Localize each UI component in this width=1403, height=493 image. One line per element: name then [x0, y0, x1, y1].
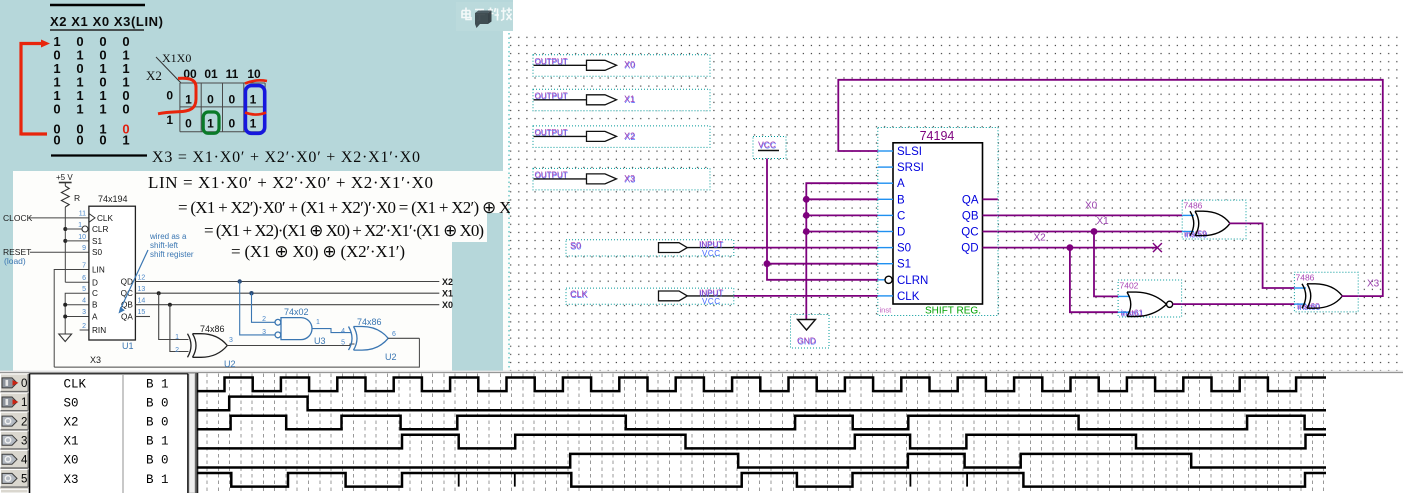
svg-text:11: 11: [79, 211, 86, 218]
svg-text:LIN: LIN: [92, 266, 105, 275]
rule under table: [51, 154, 147, 156]
GND symbol: [791, 315, 830, 349]
XOR gate U2a 74x86 (black): [188, 334, 228, 358]
svg-text:1: 1: [78, 222, 82, 229]
svg-text:SRSI: SRSI: [897, 162, 924, 174]
junction dots: [803, 196, 810, 203]
pin labels left: [92, 214, 113, 335]
svg-text:CLK: CLK: [897, 291, 920, 303]
wire LIN feedback: [54, 270, 89, 368]
svg-text:9: 9: [82, 245, 86, 252]
svg-text:QA: QA: [962, 194, 979, 206]
svg-text:S0: S0: [570, 241, 581, 251]
junction dots on output wires: [238, 279, 242, 283]
XOR gate U2b 74x86 (blue): [349, 327, 389, 351]
svg-text:15: 15: [138, 309, 146, 316]
row button 3 (X1): [1, 431, 29, 449]
partial 7th button: [1, 489, 29, 493]
U2b output wire: [388, 337, 419, 339]
svg-text:OUTPUT: OUTPUT: [535, 57, 568, 66]
svg-text:6: 6: [82, 275, 86, 282]
row button 4 (X0): [1, 450, 29, 468]
svg-text:X3: X3: [624, 173, 635, 183]
svg-text:S0: S0: [64, 396, 79, 410]
svg-text:4: 4: [82, 298, 86, 305]
svg-text:0: 0: [21, 378, 27, 390]
svg-text:0: 0: [228, 117, 235, 131]
output pin X1: [533, 89, 710, 111]
svg-text:5: 5: [341, 340, 345, 347]
row button 1 (S0): [1, 393, 29, 411]
ground symbol: [59, 334, 72, 342]
svg-text:0: 0: [207, 93, 214, 107]
right pin stubs: [983, 199, 998, 247]
svg-text:0: 0: [53, 101, 60, 116]
pin names: [897, 146, 928, 303]
svg-text:0: 0: [185, 117, 192, 131]
svg-text:S1: S1: [897, 259, 911, 271]
wire QD branch to NOR in2: [1070, 248, 1118, 313]
svg-text:5: 5: [21, 474, 27, 486]
pin numbers blue: [78, 211, 86, 330]
svg-text:7: 7: [82, 262, 86, 269]
svg-text:4: 4: [21, 455, 28, 467]
truth table top rule: [50, 4, 145, 6]
VCC symbol: [753, 137, 786, 159]
U3 output wire: [312, 329, 351, 333]
U2a output wire: [227, 344, 354, 346]
svg-text:1: 1: [185, 93, 192, 107]
svg-text:OUTPUT: OUTPUT: [535, 91, 568, 100]
row button 2 (X2): [1, 412, 29, 430]
svg-text:CLK: CLK: [97, 214, 113, 223]
X2 trace: [197, 416, 1326, 430]
svg-text:3: 3: [262, 329, 266, 336]
output wires QD QC QB: [135, 281, 439, 283]
svg-text:CLRN: CLRN: [897, 275, 928, 287]
svg-text:CLK: CLK: [570, 289, 588, 299]
svg-text:OUTPUT: OUTPUT: [535, 128, 568, 137]
svg-text:A: A: [92, 313, 98, 322]
svg-text:X0: X0: [64, 454, 79, 468]
left pin stubs: [878, 151, 893, 296]
svg-text:C: C: [897, 210, 905, 222]
svg-text:B 0: B 0: [146, 416, 169, 430]
waveform grid: [207, 374, 1324, 493]
svg-text:QA: QA: [121, 313, 133, 322]
svg-text:= (X1 + X2′)·X0′ + (X1 + X2′)′: = (X1 + X2′)·X0′ + (X1 + X2′)′·X0 = (X1 …: [178, 198, 519, 217]
svg-text:D: D: [92, 278, 98, 287]
QA stub: [135, 316, 150, 318]
dangling X mark: [1153, 243, 1162, 252]
svg-text:0: 0: [166, 89, 173, 103]
svg-text:X2: X2: [64, 416, 79, 430]
resistor R: [61, 186, 69, 207]
svg-text:CLK: CLK: [64, 377, 87, 391]
kmap blue group col 10: [245, 86, 264, 134]
svg-text:10: 10: [78, 234, 86, 241]
watermark 电子科技: [456, 2, 513, 31]
svg-text:LIN = X1·X0′ + X2′·X0′ + X2·X1: LIN = X1·X0′ + X2′·X0′ + X2·X1′·X0: [148, 173, 433, 192]
svg-text:0: 0: [228, 93, 235, 107]
XOR1 7486 inst59: [1182, 200, 1246, 240]
wire QD (X2) dangling: [983, 247, 1158, 249]
svg-text:1: 1: [99, 101, 106, 116]
svg-text:1: 1: [207, 117, 214, 131]
svg-text:01: 01: [204, 67, 218, 81]
svg-text:13: 13: [138, 286, 146, 293]
annotation wired as shift-left: [149, 232, 194, 259]
svg-text:(load): (load): [4, 256, 26, 266]
svg-text:6: 6: [392, 331, 396, 338]
pullup wire down to D: [64, 207, 66, 282]
svg-text:S0: S0: [92, 248, 102, 257]
svg-text:14: 14: [138, 298, 146, 305]
svg-text:R: R: [74, 193, 80, 203]
CLRN bubble: [885, 276, 892, 283]
bottom rail X3: [54, 338, 419, 367]
svg-text:3: 3: [82, 309, 86, 316]
svg-text:CLR: CLR: [92, 225, 108, 234]
grid dots: [509, 33, 1403, 372]
svg-text:1: 1: [250, 93, 257, 107]
svg-text:B 1: B 1: [146, 473, 169, 487]
svg-text:7402: 7402: [1120, 280, 1139, 290]
svg-text:SHIFT REG.: SHIFT REG.: [925, 305, 981, 317]
svg-text:X2: X2: [624, 131, 635, 141]
svg-text:74x86: 74x86: [357, 317, 382, 327]
svg-text:7486: 7486: [1184, 201, 1203, 211]
junction S1: [63, 239, 67, 243]
wire CLK input to chip: [734, 295, 879, 297]
svg-text:= (X1 ⊕ X0) ⊕ (X2′·X1′): = (X1 ⊕ X0) ⊕ (X2′·X1′): [231, 242, 405, 261]
svg-text:3: 3: [21, 435, 27, 447]
svg-text:X1: X1: [442, 289, 453, 299]
svg-text:11: 11: [226, 67, 239, 81]
svg-text:12: 12: [138, 274, 146, 281]
svg-text:0: 0: [122, 101, 129, 116]
svg-text:QD: QD: [961, 243, 978, 255]
svg-text:1: 1: [122, 133, 129, 148]
U3 74x02 NOR (blue AND w/ bubbles): [275, 318, 312, 340]
wire S0 input to chip: [734, 247, 879, 249]
svg-text:VCC: VCC: [702, 297, 720, 306]
red cycle arrow: [21, 44, 41, 136]
svg-text:2: 2: [175, 347, 179, 354]
output pin X3: [533, 168, 710, 190]
svg-text:wired as a: wired as a: [149, 232, 187, 241]
svg-text:1: 1: [76, 101, 83, 116]
node labels: [1034, 201, 1380, 290]
pin labels right: [121, 278, 134, 322]
output pin X2: [533, 126, 710, 147]
wire QC branch to NOR in1: [1094, 232, 1118, 297]
S0 trace: [197, 397, 1326, 411]
kmap grid: [180, 83, 265, 132]
black wires to U2a: [159, 293, 189, 339]
svg-text:U2: U2: [224, 359, 236, 369]
row button 0 (CLK): [1, 374, 29, 392]
svg-text:U1: U1: [122, 341, 134, 351]
input pin CLK: [566, 288, 734, 306]
wire RIN stub: [80, 329, 89, 331]
svg-text:X3: X3: [64, 473, 79, 487]
svg-text:1: 1: [316, 319, 320, 326]
svg-text:X3 = X1·X0′ + X2′·X0′ + X2·X1′: X3 = X1·X0′ + X2′·X0′ + X2·X1′·X0: [152, 149, 420, 166]
svg-text:D: D: [897, 227, 905, 239]
svg-text:2: 2: [262, 316, 266, 323]
svg-text:1: 1: [21, 397, 27, 409]
svg-text:74x02: 74x02: [284, 307, 309, 317]
svg-text:1: 1: [166, 113, 173, 127]
kmap green group cell 1,01: [203, 112, 219, 133]
svg-text:S1: S1: [92, 237, 102, 246]
svg-text:X2: X2: [442, 277, 453, 287]
svg-text:X3: X3: [1367, 279, 1380, 290]
CLK trace: [197, 378, 1326, 392]
input pin S0: [566, 240, 734, 258]
svg-text:OUTPUT: OUTPUT: [535, 171, 568, 180]
svg-text:A: A: [897, 178, 905, 190]
X3 glitch ticks: [458, 473, 460, 487]
junction CLR: [63, 227, 67, 231]
svg-text:QB: QB: [962, 210, 979, 222]
C B A ground rail: [65, 293, 89, 334]
wire VCC to S1 and CLRN: [767, 151, 884, 280]
svg-text:2: 2: [21, 416, 27, 428]
kmap red wrap group left: [158, 78, 196, 114]
svg-text:X0: X0: [442, 300, 453, 310]
output pin X0: [533, 55, 710, 77]
wire S1: [65, 240, 89, 242]
svg-text:RIN: RIN: [92, 326, 106, 335]
svg-text:= (X1 + X2)·(X1 ⊕ X0) + X2′·X1: = (X1 + X2)·(X1 ⊕ X0) + X2′·X1′·(X1 ⊕ X0…: [204, 221, 484, 240]
svg-text:U3: U3: [314, 336, 326, 346]
svg-text:0: 0: [76, 133, 83, 148]
svg-text:X3: X3: [90, 355, 101, 365]
svg-text:74x194: 74x194: [98, 194, 128, 204]
X3 trace: [197, 473, 1326, 487]
svg-text:1: 1: [175, 334, 179, 341]
wire QB to XOR1 in1 (X0): [983, 214, 1183, 216]
svg-text:B 0: B 0: [146, 454, 169, 468]
name/value table: [30, 374, 188, 493]
XOR2 7486 inst60: [1294, 272, 1358, 312]
wire D from reset rail: [65, 281, 89, 283]
svg-text:X1: X1: [1097, 216, 1110, 227]
clk triangle: [89, 214, 95, 223]
blue wires to U3: [252, 293, 275, 322]
X0 trace: [197, 454, 1326, 468]
svg-text:X0: X0: [1085, 201, 1098, 212]
svg-text:2: 2: [82, 323, 86, 330]
svg-text:4: 4: [341, 328, 345, 335]
kmap red wrap marks right: [245, 80, 267, 83]
sheet border: [508, 33, 510, 372]
wire gnd rail to A B C D: [806, 183, 879, 318]
svg-text:inst: inst: [880, 306, 893, 315]
wire QC to XOR1 in2 (X1): [983, 231, 1183, 233]
svg-text:QC: QC: [961, 227, 978, 239]
svg-text:U2: U2: [385, 352, 397, 362]
row button 5 (X3): [1, 470, 29, 488]
svg-text:VCC: VCC: [702, 249, 720, 258]
svg-text:B 1: B 1: [146, 377, 169, 391]
svg-text:shift-left: shift-left: [150, 241, 179, 250]
signal row buttons: [0, 373, 29, 493]
svg-text:3: 3: [229, 337, 233, 344]
svg-text:X2: X2: [1034, 233, 1047, 244]
svg-text:CLOCK: CLOCK: [3, 213, 33, 223]
svg-text:B: B: [897, 194, 905, 206]
svg-text:X1: X1: [624, 94, 635, 104]
svg-text:5: 5: [82, 286, 86, 293]
74194 shift register: [878, 128, 998, 317]
svg-text:74x86: 74x86: [200, 324, 225, 334]
svg-text:0: 0: [53, 133, 60, 148]
svg-text:7486: 7486: [1296, 273, 1315, 283]
svg-text:S0: S0: [897, 243, 911, 255]
svg-text:X1: X1: [64, 435, 79, 449]
svg-text:C: C: [92, 289, 98, 298]
wire CLR with bubble: [65, 228, 82, 230]
svg-text:+5 V: +5 V: [56, 173, 73, 182]
svg-text:B 1: B 1: [146, 435, 169, 449]
svg-text:GND: GND: [797, 336, 816, 346]
NOR 7402 inst61: [1118, 280, 1182, 319]
svg-text:SLSI: SLSI: [897, 146, 922, 158]
svg-text:1: 1: [250, 117, 257, 131]
svg-text:shift register: shift register: [150, 250, 194, 259]
wire XOR1 out to XOR2 in1: [1230, 223, 1294, 288]
svg-text:0: 0: [99, 133, 106, 148]
svg-text:B: B: [92, 301, 98, 310]
wire NOR out to XOR2 in2: [1173, 303, 1295, 305]
svg-text:X1X0: X1X0: [162, 51, 191, 65]
svg-text:X2: X2: [146, 68, 162, 83]
svg-text:B 0: B 0: [146, 396, 169, 410]
svg-text:10: 10: [247, 67, 261, 81]
X1 trace: [197, 435, 1326, 449]
svg-text:X0: X0: [624, 60, 635, 70]
74x194 chip U1: [89, 206, 135, 340]
svg-text:74194: 74194: [920, 129, 955, 143]
wire feedback X3 to SLSI: [838, 80, 1383, 296]
svg-text:VCC: VCC: [758, 139, 776, 149]
svg-text:X2 X1 X0 X3(LIN): X2 X1 X0 X3(LIN): [50, 14, 163, 29]
